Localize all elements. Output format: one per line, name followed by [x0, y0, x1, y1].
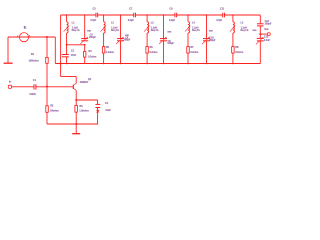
svg-text:E: E — [24, 24, 27, 29]
svg-text:100pF: 100pF — [209, 39, 216, 42]
svg-text:Req f-k: Req f-k — [72, 29, 80, 32]
svg-text:van: van — [87, 29, 92, 32]
svg-text:47nF: 47nF — [71, 54, 77, 57]
svg-text:4.7pF: 4.7pF — [90, 19, 97, 22]
svg-text:200pF: 200pF — [124, 39, 131, 42]
svg-text:Req f-k: Req f-k — [151, 29, 159, 32]
svg-text:van: van — [209, 30, 214, 33]
svg-text:100pF: 100pF — [167, 42, 174, 45]
svg-text:200pF: 200pF — [89, 36, 96, 39]
svg-text:0.2ohm: 0.2ohm — [190, 51, 198, 54]
svg-text:1.5kohm: 1.5kohm — [79, 109, 88, 112]
svg-text:2N3904: 2N3904 — [80, 81, 89, 84]
svg-text:Req f-k: Req f-k — [111, 29, 119, 32]
svg-text:200pF: 200pF — [265, 23, 272, 26]
svg-text:0.2ohm: 0.2ohm — [106, 51, 114, 54]
svg-text:6.2pF: 6.2pF — [128, 19, 135, 22]
svg-text:van: van — [252, 29, 257, 32]
svg-text:Req f-k: Req f-k — [192, 29, 200, 32]
svg-text:van: van — [167, 30, 172, 33]
svg-text:10kohm: 10kohm — [50, 109, 59, 112]
svg-text:0.2ohm: 0.2ohm — [235, 51, 243, 54]
svg-text:Req f-k: Req f-k — [241, 29, 249, 32]
svg-text:0.2ohm: 0.2ohm — [149, 51, 157, 54]
svg-text:6.2pF: 6.2pF — [169, 19, 176, 22]
svg-text:Out: Out — [264, 28, 268, 31]
svg-text:100kohm: 100kohm — [29, 59, 39, 62]
svg-text:2.2nF: 2.2nF — [264, 39, 271, 42]
svg-text:0.2ohm: 0.2ohm — [88, 55, 96, 58]
svg-text:C11: C11 — [220, 7, 225, 10]
svg-text:4.7pF: 4.7pF — [216, 19, 223, 22]
svg-text:100nF: 100nF — [29, 93, 36, 96]
svg-text:10uF: 10uF — [105, 109, 111, 112]
